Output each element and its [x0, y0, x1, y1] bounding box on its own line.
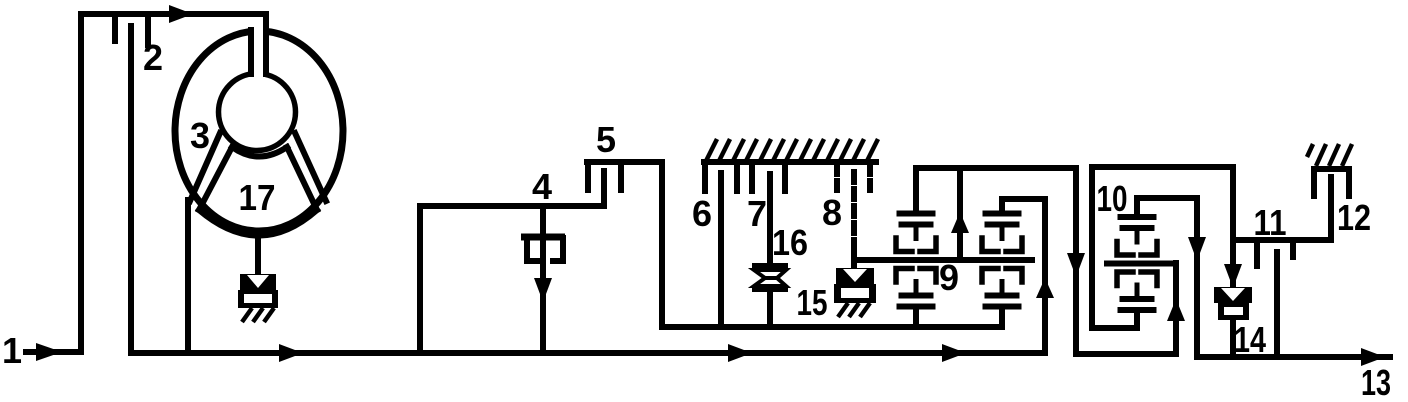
one-way clutch 14 lower wire to output line: [1230, 320, 1236, 357]
white gap in shells for input shaft slot: [253, 22, 265, 41]
one-way clutch 15 ground hatching: [838, 303, 870, 317]
clutch 11 riser wire from output line: [1274, 252, 1280, 357]
svg-text:16: 16: [772, 222, 808, 263]
converter shell output wire down to bottom line: [185, 200, 191, 353]
clutch 11 line and wire up to brake 12: [1233, 177, 1331, 240]
brake 8 dashed plate b: [867, 164, 873, 190]
svg-text:12: 12: [1337, 197, 1371, 238]
set 10 gear stack lower half: [1117, 272, 1157, 313]
one-way clutch 15 cup: [834, 284, 876, 303]
up arrow into sun bracket at x1045: [1036, 278, 1054, 298]
svg-text:7: 7: [747, 193, 767, 234]
brake 4 stub: [540, 206, 546, 235]
slot left edge line: [248, 30, 254, 74]
one-way clutch 16 bottom bar: [752, 285, 788, 292]
torque converter outer shell (pump) ellipse: [175, 31, 343, 231]
brake 4 bar: [521, 234, 565, 241]
brake 7 plate b: [782, 162, 788, 191]
set 10 middle carrier line: [1107, 261, 1176, 267]
up arrow on riser into set 10: [1167, 299, 1185, 321]
svg-text:9: 9: [939, 257, 959, 298]
set 10 gear stack upper half: [1117, 214, 1157, 255]
housing ground line: [704, 159, 876, 165]
brake 6 plate a: [702, 162, 708, 191]
svg-text:2: 2: [143, 37, 163, 78]
down arrow on brake 4 shaft: [534, 278, 552, 302]
stator ground hatching: [242, 308, 274, 322]
stator one-way clutch cup: [238, 290, 278, 308]
one-way clutch 14 cup: [1218, 303, 1249, 320]
brake 6 riser wire down to inner line: [718, 173, 724, 327]
planetary 9 right gear stack upper half: [982, 211, 1022, 252]
down arrow on set 10 output vertical: [1188, 237, 1206, 261]
svg-text:17: 17: [239, 177, 276, 218]
planetary 9 ring wire: top line, down right side, bottom jog, up into set 10 middle: [916, 168, 1176, 354]
svg-text:13: 13: [1361, 362, 1391, 402]
stator one-way clutch wedge bar: [240, 274, 276, 290]
sun gear shaft line from 15 through planetary 9: [855, 257, 1032, 263]
svg-text:1: 1: [2, 330, 22, 371]
clutch 5 plate a: [585, 164, 591, 190]
clutch 2 output wire down and main bottom line to planetary, up to bracket: [131, 26, 1045, 353]
one-way clutch 16 lower trapezoid: [754, 278, 786, 286]
arrow on input line 1: [36, 343, 62, 361]
clutch 5 line and wire down to inner bottom line to ring gears: [587, 162, 1002, 327]
one-way clutch 16 upper trapezoid: [754, 270, 786, 278]
clutch 11 plate a: [1254, 240, 1260, 266]
svg-text:14: 14: [1234, 319, 1266, 360]
brake 7 plate a: [749, 162, 755, 191]
wire riser into one-way clutch 15: [851, 248, 857, 270]
wedge stator 17 left side: [199, 147, 232, 210]
brake 8 dashed plate a: [834, 164, 840, 190]
svg-text:8: 8: [822, 192, 842, 233]
svg-text:5: 5: [596, 119, 616, 160]
carrier riser wire x960: [957, 168, 963, 260]
brake 7 riser wire lower to inner line: [767, 292, 773, 327]
shell gap slant line left: [190, 133, 220, 201]
clutch 5 riser from shaft 4: [601, 171, 607, 206]
clutch 5 plate b: [618, 162, 624, 190]
arrow on bottom line near converter: [279, 344, 303, 362]
arrow on bottom line mid: [728, 344, 752, 362]
stator shaft below converter: [255, 232, 261, 276]
up arrow on carrier riser x960: [951, 212, 969, 233]
brake 4 left hook: [527, 238, 537, 261]
arrow on top input line: [169, 5, 193, 23]
wire from bottom line up to shaft 4 line: [420, 206, 604, 353]
torque converter inner hub circle: [219, 74, 296, 151]
planetary 9 left gear stack lower half: [896, 269, 936, 310]
svg-text:11: 11: [1254, 202, 1287, 243]
brake 8 dashed riser: [851, 172, 857, 250]
clutch 2 plate b: [145, 16, 151, 45]
svg-text:15: 15: [797, 282, 828, 323]
wedge stator 17 right side: [287, 147, 317, 210]
planetary 9 right gear stack lower half: [982, 269, 1022, 310]
set 10 inner bracket and output wire down to final drive line 13: [1137, 198, 1390, 357]
housing ground hatching: [705, 139, 878, 163]
clutch 2 plate a: [112, 16, 118, 41]
arrow on bottom line right: [942, 344, 966, 362]
brake 6 plate b: [734, 162, 740, 191]
down arrow into one-way clutch 14: [1224, 264, 1242, 288]
wedge stator 17 bottom arc: [199, 210, 317, 236]
planetary 9 left gear stack upper half: [896, 211, 936, 252]
brake 4 right hook: [553, 238, 563, 261]
one-way clutch 15 wedge bar: [836, 268, 874, 284]
shell gap slant line right: [295, 133, 326, 201]
svg-text:10: 10: [1097, 178, 1128, 219]
svg-text:3: 3: [190, 115, 210, 156]
arrow on output line 13: [1361, 348, 1385, 366]
clutch 11 plate b: [1290, 240, 1296, 257]
brake 4 arrow shaft down to bottom line: [540, 240, 546, 353]
brake 12 ground staple: [1314, 169, 1349, 196]
svg-text:4: 4: [532, 166, 552, 207]
one-way clutch 16 top bar: [752, 263, 788, 270]
brake 12 ground hatching: [1307, 144, 1352, 166]
input shaft 1 wire: input line, up, top line, down into converter: [26, 14, 266, 352]
svg-text:6: 6: [692, 193, 712, 234]
planetary 9 left stack bottom shaft: [913, 311, 919, 327]
wedge stator 17 top arc: [232, 147, 287, 157]
down arrow on planetary right vertical: [1067, 253, 1085, 277]
one-way clutch 14 wedge bar: [1214, 287, 1252, 303]
brake 7 riser wire upper: [767, 174, 773, 264]
set 10 outer box wire: right vertical, top, left vertical, bottom jog to stack: [1092, 167, 1233, 328]
